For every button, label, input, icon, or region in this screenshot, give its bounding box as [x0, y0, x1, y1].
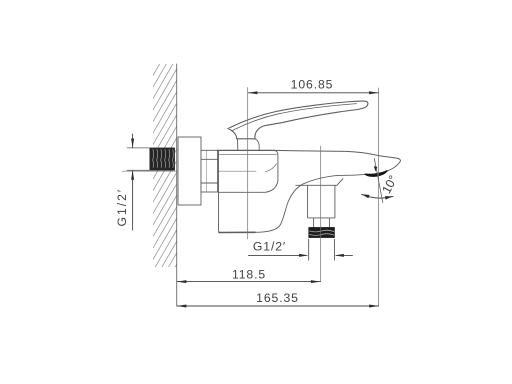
bottom G1/2 dimension [248, 239, 352, 260]
dimension 165.35 [177, 305, 379, 307]
wall face line [176, 64, 178, 306]
spout underside sweep [255, 171, 386, 232]
pipe extension lines [127, 147, 150, 149]
handle inner top line [233, 104, 357, 131]
body inner top line [219, 153, 277, 155]
body left edge [219, 150, 221, 232]
hose ledge [296, 179, 343, 186]
body inner bottom and right edge [219, 150, 278, 192]
angle tilted line [374, 159, 383, 203]
svg-text:165.35: 165.35 [256, 291, 299, 305]
dim arrow up [131, 170, 134, 179]
hose thread block [309, 227, 335, 237]
svg-text:G1/2′: G1/2′ [253, 239, 286, 253]
hose tube [308, 185, 335, 218]
body base bottom [219, 231, 255, 233]
handle lever outline [228, 101, 368, 139]
hex nut [201, 150, 218, 192]
handle stem [237, 139, 239, 151]
dimension 106.85 [248, 92, 379, 94]
dim arrow down [131, 139, 134, 148]
svg-text:118.5: 118.5 [232, 268, 266, 282]
dimension 118.5 [177, 281, 320, 283]
right extension line [378, 88, 380, 306]
small arrow at outlet [374, 166, 378, 171]
spout top edge [275, 150, 401, 171]
horizontal centerline [122, 170, 256, 172]
wall hatching [153, 35, 177, 306]
hose axis centerline [320, 146, 322, 282]
angle arc [362, 194, 394, 198]
body top deck line [217, 149, 274, 151]
hose neck [314, 218, 330, 228]
svg-text:G1/2′: G1/2′ [115, 188, 129, 227]
wall nipple G1/2 threaded pipe [150, 148, 175, 170]
left vertical dimension G1/2 [132, 134, 134, 230]
body inner curve [266, 164, 277, 172]
aerator dark crescent [365, 171, 387, 176]
escutcheon flange [178, 137, 201, 205]
svg-text:106.85: 106.85 [291, 77, 334, 91]
vertical centerline (cartridge axis) [247, 88, 249, 240]
